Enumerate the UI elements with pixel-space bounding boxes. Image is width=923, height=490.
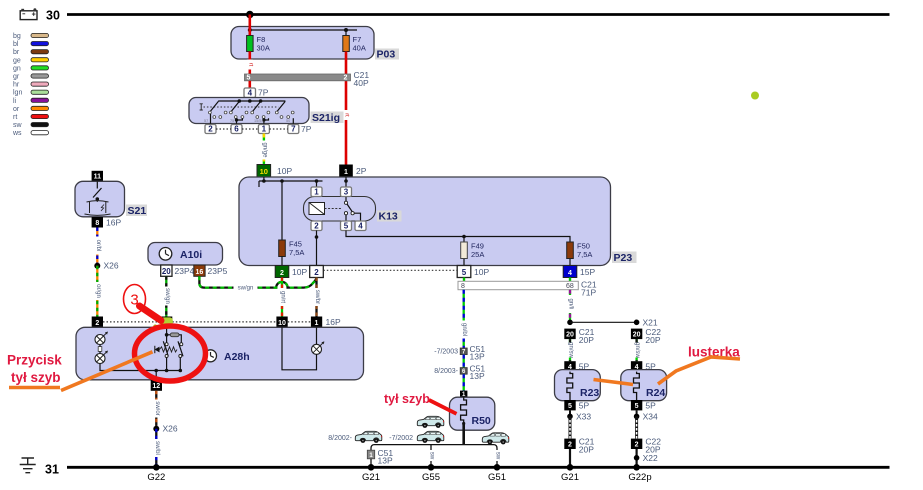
pin 8 of S21 (16P) — [92, 217, 103, 228]
svg-text:8: 8 — [461, 283, 465, 290]
svg-text:20P: 20P — [579, 335, 594, 345]
svg-text:2: 2 — [344, 75, 348, 82]
svg-text:sw: sw — [495, 452, 501, 460]
splice X26 — [94, 263, 100, 269]
ground branch line — [371, 445, 497, 468]
svg-text:G21: G21 — [561, 472, 579, 483]
svg-text:5: 5 — [247, 75, 251, 82]
connector C21 40P bar — [245, 74, 351, 81]
contact circles row 1 — [209, 111, 295, 114]
pin 7 of S21ig — [288, 125, 299, 134]
svg-text:4: 4 — [358, 222, 363, 231]
wire R50 to ground bus — [462, 424, 465, 445]
svg-text:gn/sw: gn/sw — [634, 342, 640, 358]
wire colour legend — [12, 33, 49, 137]
svg-text:5: 5 — [568, 403, 572, 410]
pin 5 of R24 (5P) — [631, 400, 642, 410]
splice to X21 link — [567, 320, 573, 326]
car icon upper — [417, 416, 444, 428]
wire C51-1 to ground — [370, 459, 372, 468]
svg-text:23P4: 23P4 — [175, 266, 195, 276]
svg-text:68: 68 — [566, 283, 574, 290]
wire sw/or A28h pin12 to X26b — [153, 391, 160, 429]
pin 1 of S21ig — [258, 125, 269, 134]
svg-text:sw: sw — [13, 122, 23, 129]
svg-text:K13: K13 — [379, 211, 398, 223]
svg-text:R50: R50 — [472, 415, 491, 427]
svg-text:-7/2002: -7/2002 — [389, 435, 413, 442]
wire gn/bl C51-6 to R50 pin1 — [463, 374, 465, 390]
ground point G22 — [153, 464, 160, 471]
battery symbol — [20, 8, 37, 19]
wire to ground G21 — [569, 449, 571, 467]
clock icon A10i — [159, 248, 172, 261]
svg-text:Przycisk: Przycisk — [7, 353, 62, 368]
wire sw/bl X26 to ground G22 — [153, 429, 160, 468]
pin 2 of P23 (green 10P) — [275, 266, 289, 278]
svg-text:P03: P03 — [377, 49, 396, 61]
svg-text:sw/bl: sw/bl — [154, 441, 160, 455]
svg-text:gn/ge: gn/ge — [261, 142, 267, 158]
svg-text:gn/li: gn/li — [568, 298, 574, 309]
K13 pin 4 — [355, 221, 366, 231]
pin 4 of P23 (blue 15P) — [563, 266, 577, 278]
svg-text:7,5A: 7,5A — [289, 248, 304, 257]
wire K13 pin5 to fuses F49 F50 — [346, 231, 570, 266]
pin 20 of A10i (23P4) — [161, 265, 172, 276]
S21 designator label — [126, 205, 147, 217]
wire or/bl S21 pin8 to X26 — [94, 228, 101, 266]
ground point G21 right — [567, 464, 574, 471]
internal bus — [218, 100, 285, 102]
svg-text:10P: 10P — [292, 267, 307, 277]
svg-text:G22p: G22p — [628, 472, 651, 483]
timer module A10i — [148, 243, 223, 266]
svg-text:A10i: A10i — [180, 249, 202, 261]
svg-text:2P: 2P — [356, 166, 367, 176]
ignition switch S21ig — [189, 98, 309, 124]
fuse F49 25A — [461, 242, 468, 259]
connector C51 13P pin 1 — [367, 450, 374, 459]
svg-text:P23: P23 — [614, 252, 633, 264]
splice X34 — [636, 410, 638, 416]
dotted link pin2-pin5 — [323, 269, 457, 271]
svg-text:G51: G51 — [488, 472, 506, 483]
wire lamps to bottom bus — [100, 364, 180, 371]
svg-text:lgn: lgn — [13, 90, 22, 97]
wire inside P03 — [250, 29, 357, 31]
S21ig designator label — [311, 112, 344, 124]
clock icon A28h — [205, 350, 217, 362]
svg-text:or/gn: or/gn — [95, 284, 101, 298]
wire to ground G22p with splice X22 — [635, 449, 637, 467]
svg-text:11: 11 — [94, 174, 102, 181]
svg-text:1: 1 — [314, 188, 319, 197]
pin 4 of S21ig (7P) — [244, 88, 256, 98]
wire ws X33 to C21-2 — [569, 416, 572, 438]
wire gn/li P23 pin4 to splice — [567, 290, 574, 323]
svg-text:10: 10 — [278, 320, 286, 327]
I position symbol — [200, 104, 203, 110]
fuse F8 30A — [247, 36, 254, 52]
ground point G21 — [368, 464, 375, 471]
wire gn/sw to R24 pin4 — [633, 339, 640, 361]
cigar lighter S21 — [75, 181, 125, 217]
lamp 2 — [95, 351, 108, 364]
wire sw/gn A10i pin20 down to junction — [163, 276, 170, 317]
svg-text:20: 20 — [162, 267, 171, 276]
wire gn/sw to R23 pin4 — [567, 339, 574, 361]
pin (junction) of A28h under splice — [161, 317, 172, 328]
svg-text:rt: rt — [247, 63, 253, 67]
pin 11 of S21 — [92, 171, 103, 182]
control unit P23 — [239, 177, 611, 266]
relay K13 — [304, 197, 376, 222]
wire rt F8 to connector C21 — [249, 52, 252, 75]
wire F45 down — [281, 257, 283, 266]
tiny ws labels on drops — [429, 450, 434, 461]
svg-text:gr: gr — [13, 74, 20, 81]
pin 4 of R24 (5P) — [631, 361, 642, 371]
pin 1 of A28h (16P) — [311, 317, 322, 328]
svg-text:2: 2 — [568, 442, 572, 449]
svg-text:8: 8 — [95, 220, 99, 227]
svg-text:5P: 5P — [645, 401, 656, 411]
svg-text:sw: sw — [429, 452, 435, 460]
fuse box P03 — [231, 27, 374, 60]
right lamp — [312, 342, 325, 355]
svg-text:X26: X26 — [163, 424, 178, 434]
wire ws X34 to C22-2 — [635, 416, 638, 438]
svg-text:S21ig: S21ig — [312, 112, 340, 124]
svg-text:57: 57 — [204, 119, 208, 123]
annotation: 3 badge — [124, 285, 146, 314]
svg-text:30A: 30A — [257, 44, 270, 53]
fuse F45 7,5A — [279, 240, 286, 257]
svg-text:R24: R24 — [646, 387, 665, 399]
connector C21 71P bar — [458, 281, 578, 289]
svg-text:75: 75 — [230, 119, 234, 123]
K13 coil — [309, 203, 325, 215]
svg-text:or: or — [13, 106, 20, 113]
svg-text:1: 1 — [262, 125, 267, 134]
dotted connector line A28h top — [103, 321, 311, 323]
svg-text:4: 4 — [568, 270, 572, 277]
wire rt from rail to F8 — [249, 15, 252, 36]
highlight splice (lime) — [161, 317, 173, 326]
svg-text:30: 30 — [46, 9, 60, 23]
wire: bus 30 rail — [67, 13, 890, 16]
svg-text:A28h: A28h — [224, 351, 250, 363]
K13 pin 3 — [341, 187, 352, 197]
svg-text:7P: 7P — [301, 124, 312, 134]
svg-text:3: 3 — [344, 188, 349, 197]
wire sw/br P23 pin2w to A28h pin1 — [313, 278, 320, 317]
pin 2 of P23 (white 16P side) — [310, 266, 324, 278]
svg-text:X22: X22 — [643, 453, 658, 463]
pin 1 of P23 (2P) — [339, 165, 353, 178]
lamp link — [99, 345, 101, 354]
svg-text:gn/bl: gn/bl — [461, 323, 467, 336]
push switch — [166, 327, 168, 335]
svg-text:40A: 40A — [353, 44, 366, 53]
svg-text:16P: 16P — [326, 317, 341, 327]
svg-text:X34: X34 — [643, 412, 658, 422]
P23 designator label — [612, 252, 637, 264]
fuse F50 7,5A — [567, 242, 574, 259]
svg-text:sw/gn: sw/gn — [238, 285, 254, 291]
connector C21 20P pin 2 — [564, 439, 575, 449]
pin 4 of R23 (5P) — [564, 361, 575, 371]
svg-text:16P: 16P — [106, 218, 121, 228]
wire gn stubs to C21 71P — [463, 278, 465, 282]
svg-text:15/54: 15/54 — [254, 119, 264, 123]
svg-text:rt: rt — [344, 113, 350, 117]
svg-text:2: 2 — [208, 125, 213, 134]
svg-text:5: 5 — [635, 403, 639, 410]
P03 designator label — [375, 49, 399, 60]
pin 1 of R50 — [460, 391, 467, 398]
splice X21 — [634, 320, 640, 326]
svg-text:6: 6 — [234, 125, 239, 134]
pin 2 of S21ig — [205, 125, 216, 134]
K13 pin 1 — [311, 187, 322, 197]
svg-text:ge: ge — [13, 57, 21, 64]
splice X26 lower — [153, 426, 159, 432]
lamp 1 — [95, 332, 108, 345]
wire sw/gn A10i pin16 to P23 pin2 — [199, 276, 316, 291]
wire K13 pin2 down — [315, 231, 319, 266]
pin 10 of A28h — [276, 317, 287, 328]
svg-text:12: 12 — [152, 383, 160, 390]
svg-text:8/2002-: 8/2002- — [328, 435, 352, 442]
svg-text:X26: X26 — [104, 261, 119, 271]
svg-text:10P: 10P — [474, 267, 489, 277]
svg-text:16: 16 — [196, 269, 204, 276]
wire rt C21 to S21ig pin 4 — [249, 81, 252, 88]
ground point G55 — [428, 464, 435, 471]
svg-text:X33: X33 — [576, 412, 591, 422]
svg-text:hr: hr — [13, 82, 20, 89]
svg-text:rt: rt — [13, 114, 17, 121]
svg-text:20: 20 — [633, 331, 641, 338]
wire: bus 31 rail — [67, 466, 890, 469]
car icon right — [482, 433, 509, 445]
lime dot top right — [751, 92, 759, 100]
svg-text:br: br — [13, 49, 20, 56]
svg-text:4: 4 — [248, 88, 253, 97]
wire label rt — [343, 110, 349, 120]
pin 16 of A10i (23P5) — [194, 265, 205, 276]
connector C21 20P pin 20 — [564, 329, 575, 340]
switch blades — [210, 101, 218, 111]
svg-text:gn: gn — [13, 65, 21, 72]
K13 contact — [345, 197, 347, 202]
svg-text:1: 1 — [315, 320, 319, 327]
svg-text:5: 5 — [462, 268, 467, 277]
svg-text:bg: bg — [13, 33, 21, 40]
K13 pin 5 — [341, 221, 352, 231]
svg-text:R23: R23 — [580, 387, 599, 399]
svg-text:50: 50 — [286, 119, 290, 123]
pin stubs — [210, 114, 212, 124]
svg-text:2: 2 — [314, 222, 319, 231]
svg-text:li: li — [13, 98, 17, 105]
ground point G22p — [633, 464, 640, 471]
wire gn/bl C51-7 to C51-6 — [463, 355, 465, 368]
svg-text:X21: X21 — [643, 318, 658, 328]
svg-text:5: 5 — [344, 222, 349, 231]
svg-text:13P: 13P — [378, 456, 393, 466]
wire gn/bl P23 pin5 to C51 — [460, 290, 467, 348]
svg-text:15P: 15P — [580, 267, 595, 277]
svg-text:40P: 40P — [354, 78, 369, 88]
svg-text:G55: G55 — [422, 472, 440, 483]
connector C22 20P pin 20 — [631, 329, 642, 340]
svg-text:7: 7 — [291, 125, 296, 134]
wire rt F7 down to P23 pin 1 — [345, 52, 348, 165]
junction on rail 30 — [246, 11, 254, 19]
internal wires P23 — [259, 177, 346, 240]
pin 6 of S21ig — [231, 125, 242, 134]
pin 2 of A28h — [92, 317, 103, 328]
heated rear window R50 — [450, 397, 495, 430]
svg-text:2: 2 — [635, 442, 639, 449]
ground symbol 31 — [20, 458, 36, 473]
svg-text:sw/br: sw/br — [314, 290, 320, 304]
pin 5 of P23 (10P) — [457, 266, 471, 278]
mirror heater R24 — [621, 370, 667, 401]
connector C51 13P pin 6 — [460, 368, 467, 375]
svg-text:13P: 13P — [470, 352, 485, 362]
svg-text:20: 20 — [566, 331, 574, 338]
K13 coupling dashed line — [325, 208, 342, 210]
svg-text:7P: 7P — [258, 88, 269, 98]
svg-text:20P: 20P — [579, 445, 594, 455]
svg-text:7,5A: 7,5A — [577, 250, 592, 259]
svg-text:10: 10 — [260, 167, 268, 176]
pin 5 of R23 (5P) — [564, 400, 575, 410]
wire label rt — [247, 60, 253, 70]
svg-text:31: 31 — [45, 463, 59, 477]
annotation: red circle around switch — [135, 326, 206, 381]
svg-text:2: 2 — [314, 268, 319, 277]
wire or/gn X26 to A28h pin2 — [94, 266, 101, 317]
connector C51 13P pin 7 — [460, 348, 467, 355]
svg-text:G22: G22 — [147, 472, 165, 483]
pin 10 of P23 (10P) — [257, 165, 271, 178]
svg-text:25A: 25A — [471, 250, 484, 259]
fuse F7 40A — [345, 30, 347, 36]
svg-text:S21: S21 — [128, 205, 147, 217]
svg-text:ws: ws — [12, 130, 22, 137]
dotted connector line 7P — [216, 128, 288, 130]
K13 pin 2 — [311, 221, 322, 231]
svg-text:2: 2 — [280, 270, 284, 277]
switch module A28h — [76, 327, 364, 380]
svg-text:-7/2003: -7/2003 — [434, 349, 458, 356]
pin 12 of A28h — [151, 380, 162, 391]
mirror heater R23 — [555, 370, 601, 401]
svg-text:or/bl: or/bl — [95, 240, 101, 252]
svg-text:tył szyb: tył szyb — [11, 370, 61, 385]
svg-text:tył szyb: tył szyb — [384, 392, 430, 406]
svg-text:sw/or: sw/or — [154, 401, 160, 415]
svg-text:10P: 10P — [277, 166, 292, 176]
dashed selector line — [204, 106, 279, 108]
wire gn/ge S21ig pin1 to P23 pin10 — [261, 134, 268, 165]
svg-text:gn/rt: gn/rt — [280, 291, 286, 303]
contact circles row 2 — [213, 116, 290, 119]
svg-text:1: 1 — [344, 169, 348, 176]
svg-text:20P: 20P — [645, 335, 660, 345]
svg-text:bl: bl — [13, 41, 19, 48]
svg-text:23P5: 23P5 — [208, 266, 228, 276]
svg-text:5P: 5P — [579, 401, 590, 411]
splice X33 — [569, 410, 571, 416]
svg-text:71P: 71P — [581, 288, 596, 298]
svg-text:G21: G21 — [362, 472, 380, 483]
K13 designator label — [377, 211, 402, 222]
svg-text:sw/gn: sw/gn — [164, 288, 170, 304]
svg-text:2: 2 — [95, 320, 99, 327]
ground point G51 — [494, 464, 501, 471]
connector C22 20P pin 2 — [631, 439, 642, 449]
svg-text:gn/sw: gn/sw — [568, 342, 574, 358]
wire gn/rt P23 pin2 to A28h pin10 — [279, 278, 286, 317]
svg-text:8/2003-: 8/2003- — [434, 368, 458, 375]
svg-text:13P: 13P — [470, 371, 485, 381]
